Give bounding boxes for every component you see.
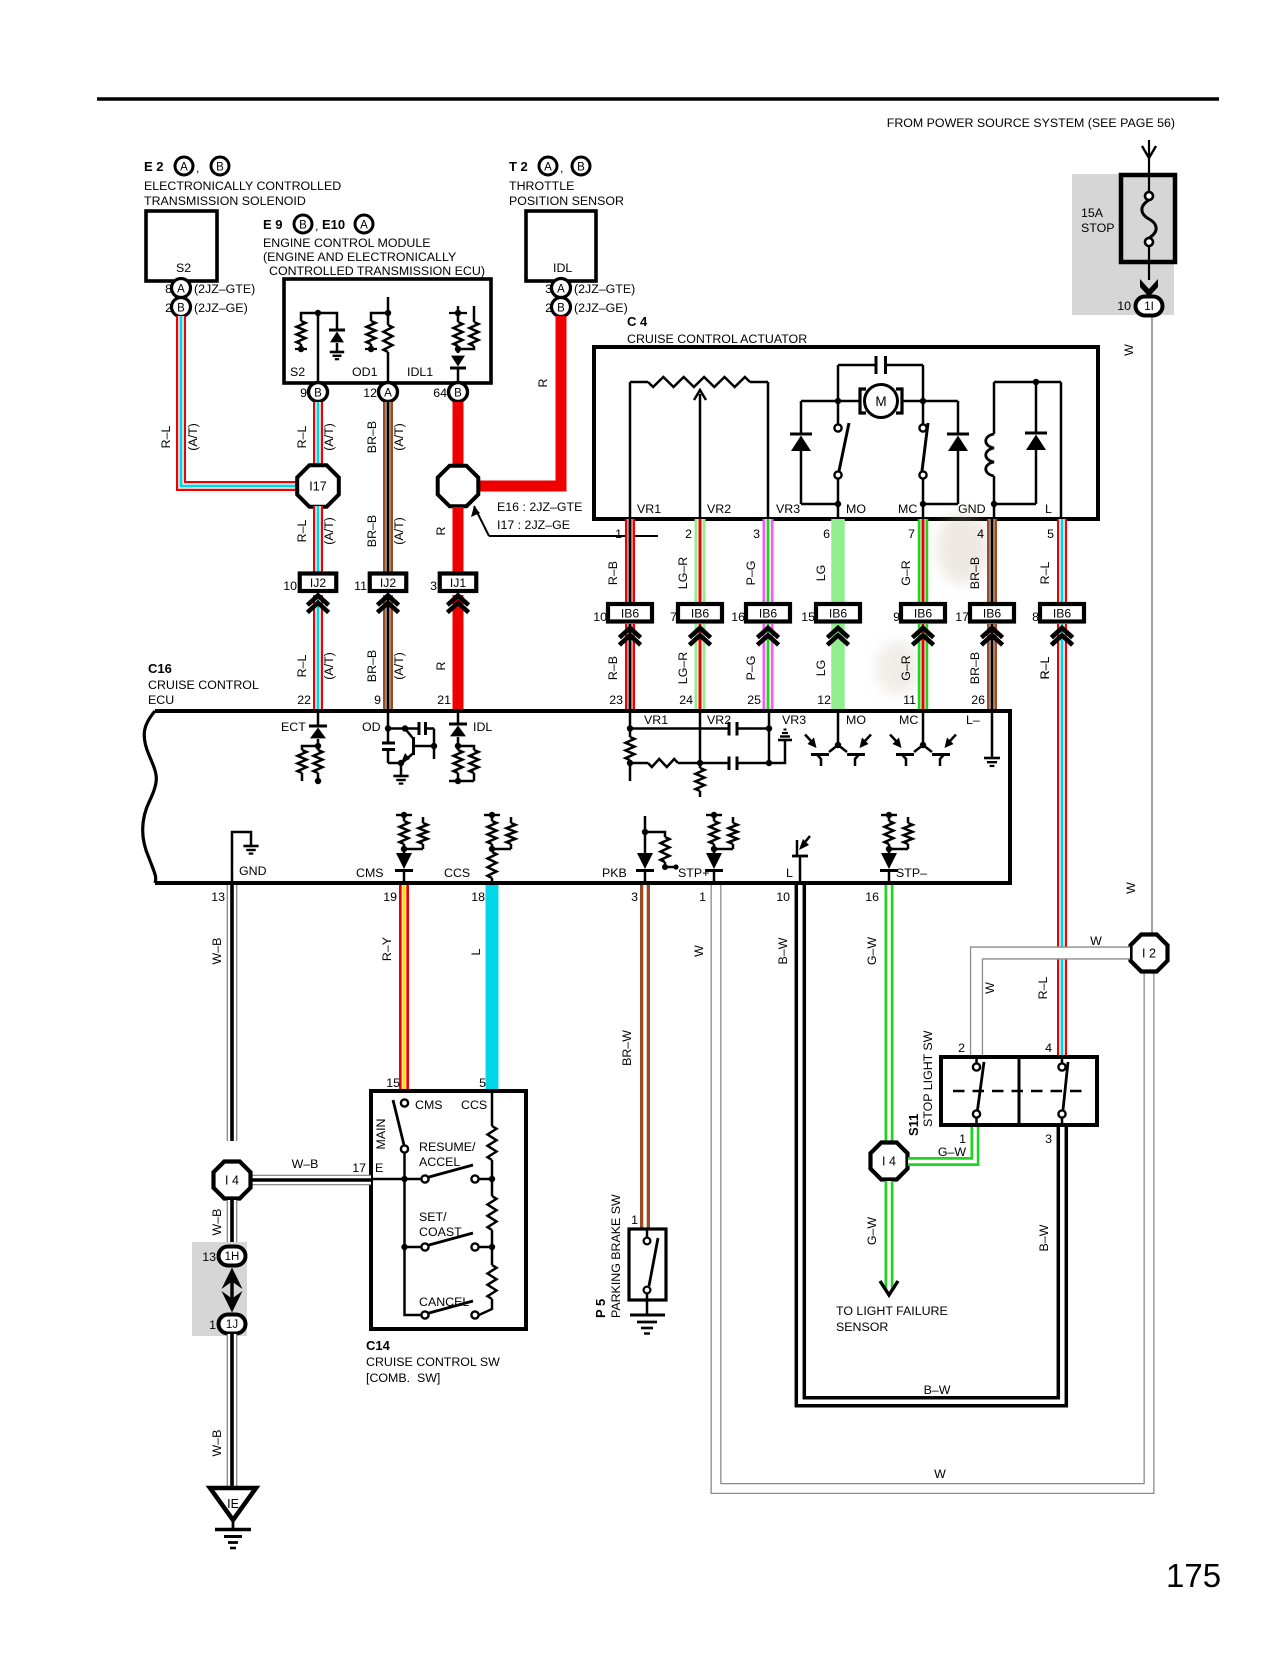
relay coil (GND): [986, 382, 994, 519]
diode D1 (MO): [790, 401, 838, 504]
svg-text:CANCEL: CANCEL: [419, 1295, 469, 1309]
wire R–B to ECU: [625, 624, 635, 709]
wire R from ECM IDL1 to E16 octagon: [453, 402, 464, 467]
svg-text:CMS: CMS: [356, 866, 384, 880]
svg-text:(A/T): (A/T): [322, 517, 336, 545]
wire W-B below I4 to 1H: [227, 1200, 238, 1247]
svg-text:STP–: STP–: [896, 866, 927, 880]
connector IJ2 pin 10: [283, 574, 336, 594]
wire R-L below I17: [313, 506, 323, 574]
svg-text:(2JZ–GTE): (2JZ–GTE): [194, 282, 255, 296]
svg-text:CCS: CCS: [444, 866, 470, 880]
ECU C16 box: [155, 711, 1010, 883]
connector 1J: [209, 1315, 245, 1334]
svg-text:BR–W: BR–W: [620, 1030, 634, 1066]
svg-text:R–L: R–L: [295, 426, 309, 449]
svg-text:CRUISE CONTROL SW: CRUISE CONTROL SW: [366, 1355, 500, 1369]
wire LG–R to ECU: [695, 624, 706, 709]
svg-text:1: 1: [631, 1213, 638, 1227]
svg-text:6: 6: [823, 527, 830, 541]
svg-text:W–B: W–B: [210, 1209, 224, 1236]
svg-text:17: 17: [955, 610, 969, 624]
svg-text:16: 16: [865, 890, 879, 904]
svg-text:IB6: IB6: [983, 606, 1002, 620]
svg-text:(A/T): (A/T): [392, 423, 406, 451]
svg-text:R–B: R–B: [606, 656, 620, 680]
svg-text:11: 11: [354, 579, 367, 593]
svg-text:L–: L–: [966, 713, 980, 727]
svg-text:A: A: [180, 162, 188, 174]
C14 RESUME/ACCEL switch: [419, 1140, 495, 1183]
svg-text:POSITION SENSOR: POSITION SENSOR: [509, 194, 624, 208]
svg-text:W: W: [1122, 344, 1136, 356]
wires below IJ row: [313, 595, 323, 709]
svg-text:LG–R: LG–R: [676, 557, 690, 589]
svg-text:A: A: [360, 220, 368, 232]
P5 switch: [644, 1229, 658, 1315]
svg-text:B–W: B–W: [1037, 1224, 1051, 1251]
svg-text:B: B: [557, 303, 565, 315]
svg-text:VR1: VR1: [637, 502, 661, 516]
svg-text:STOP: STOP: [1081, 221, 1115, 235]
svg-text:C14: C14: [366, 1338, 391, 1353]
svg-text:GND: GND: [239, 864, 267, 878]
shield chevron: [689, 628, 710, 638]
svg-text:(ENGINE AND ELECTRONICALLY: (ENGINE AND ELECTRONICALLY: [263, 250, 456, 264]
C14 CCS resistor chain top: [488, 1091, 497, 1179]
svg-text:4: 4: [1045, 1041, 1052, 1055]
svg-text:10: 10: [593, 610, 607, 624]
svg-text:IJ2: IJ2: [380, 576, 396, 590]
svg-text:ACCEL: ACCEL: [419, 1155, 460, 1169]
C14 internal E line: [371, 1176, 421, 1182]
svg-text:W: W: [934, 1467, 946, 1481]
svg-text:IDL: IDL: [553, 261, 572, 275]
ECU STP+ circuit: [678, 812, 738, 883]
svg-text:I 4: I 4: [882, 1155, 896, 1169]
svg-text:IJ1: IJ1: [450, 576, 466, 590]
svg-text:BR–B: BR–B: [365, 650, 379, 682]
svg-text:G–W: G–W: [865, 937, 879, 966]
connector I4 (G-W): [871, 1143, 908, 1180]
svg-text:MC: MC: [899, 713, 918, 727]
ECU IDL circuit: [449, 711, 492, 784]
svg-text:13: 13: [211, 890, 225, 904]
label T2 throttle position sensor: [509, 157, 624, 208]
wire B-W loop L to S11 pin 3: [800, 885, 1062, 1402]
power feed arrow: [1142, 140, 1156, 192]
svg-text:BR–B: BR–B: [365, 515, 379, 547]
svg-text:IDL1: IDL1: [407, 365, 433, 379]
wire G-W from S11 pin1 to I4: [908, 1125, 975, 1162]
wire BR–B to ECU: [987, 624, 997, 709]
connector I17: [297, 465, 339, 507]
C14 CANCEL switch: [405, 1247, 479, 1319]
svg-text:VR3: VR3: [776, 502, 800, 516]
C14 SET/COAST switch: [401, 1179, 495, 1251]
potentiometer VR: [630, 377, 768, 519]
svg-text:G–W: G–W: [865, 1217, 879, 1246]
svg-text:R: R: [434, 526, 448, 535]
svg-text:STOP LIGHT SW: STOP LIGHT SW: [921, 1030, 935, 1127]
ECU MC driver transistors: [890, 711, 956, 766]
svg-text:MAIN: MAIN: [374, 1119, 388, 1150]
arrow to light failure sensor: [880, 1281, 898, 1295]
svg-text:W–B: W–B: [292, 1157, 319, 1171]
svg-text:TRANSMISSION SOLENOID: TRANSMISSION SOLENOID: [144, 194, 306, 208]
wire R-L from ECM S2 pin to I17: [313, 402, 323, 468]
potentiometer wiper VR2: [694, 390, 706, 519]
svg-text:3: 3: [631, 890, 638, 904]
svg-text:10: 10: [283, 579, 297, 593]
svg-text:L: L: [1045, 502, 1052, 516]
svg-text:3: 3: [430, 579, 437, 593]
label E9 E10 engine control module: [263, 215, 485, 278]
svg-text:P–G: P–G: [744, 656, 758, 681]
svg-text:(2JZ–GE): (2JZ–GE): [194, 301, 248, 315]
connector IB6 pin 9: [893, 604, 945, 624]
svg-text:B: B: [216, 162, 224, 174]
svg-text:MO: MO: [846, 502, 866, 516]
svg-text:R–L: R–L: [295, 520, 309, 543]
wire R-L from IB6 8 down to S11 pin 4: [1057, 624, 1067, 1057]
svg-text:B–W: B–W: [924, 1383, 951, 1397]
shield chevron: [827, 628, 848, 638]
wire R below E16 octagon: [453, 507, 464, 574]
svg-text:1: 1: [959, 1132, 966, 1146]
svg-text:VR2: VR2: [707, 502, 731, 516]
svg-text:3: 3: [753, 527, 760, 541]
svg-text:(A/T): (A/T): [392, 517, 406, 545]
C14 MAIN switch: [374, 1099, 408, 1179]
svg-text:A: A: [544, 162, 552, 174]
svg-text:26: 26: [971, 693, 985, 707]
throttle sensor IDL box: [526, 211, 596, 281]
svg-text:LG: LG: [814, 565, 828, 582]
svg-text:CCS: CCS: [461, 1098, 487, 1112]
svg-text:IB6: IB6: [829, 606, 848, 620]
svg-text:E16 : 2JZ–GTE: E16 : 2JZ–GTE: [497, 500, 582, 514]
node MO top: [835, 398, 841, 404]
svg-text:4: 4: [977, 527, 984, 541]
svg-text:(2JZ–GE): (2JZ–GE): [574, 301, 628, 315]
connector 1H: [202, 1247, 245, 1266]
connector IB6 pin 17: [955, 604, 1014, 624]
ECU GND lead: [232, 832, 267, 883]
svg-text:[COMB. SW]: [COMB. SW]: [366, 1371, 440, 1385]
svg-text:9: 9: [374, 693, 381, 707]
svg-text:10: 10: [1117, 299, 1131, 313]
svg-text:23: 23: [609, 693, 623, 707]
svg-text:B: B: [454, 388, 462, 400]
svg-text:MC: MC: [898, 502, 917, 516]
connector IJ2 pin 11: [354, 574, 406, 594]
ECM S2 circuit: [290, 310, 345, 383]
svg-text:175: 175: [1166, 1557, 1221, 1594]
svg-text:P–G: P–G: [744, 561, 758, 586]
diode D2 (MC): [923, 401, 969, 504]
svg-text:1: 1: [615, 527, 622, 541]
svg-text:22: 22: [297, 693, 311, 707]
page top rule: [97, 97, 1219, 101]
svg-text:G–W: G–W: [938, 1145, 967, 1159]
svg-text:MO: MO: [846, 713, 866, 727]
ECU VR1/VR2/VR3 network: [626, 711, 807, 797]
fuse shaded area: [1072, 174, 1174, 315]
svg-text:R: R: [434, 661, 448, 670]
svg-text:E 2: E 2: [144, 159, 164, 174]
svg-text:RESUME/: RESUME/: [419, 1140, 476, 1154]
svg-text:,: ,: [560, 161, 563, 175]
svg-text:ENGINE CONTROL MODULE: ENGINE CONTROL MODULE: [263, 236, 431, 250]
svg-text:,: ,: [196, 161, 199, 175]
svg-text:VR3: VR3: [782, 713, 806, 727]
svg-text:B: B: [299, 220, 307, 232]
ECM pin 64 B: [433, 383, 467, 402]
P5 ground: [630, 1315, 665, 1334]
svg-text:C16: C16: [148, 661, 172, 676]
svg-text:(A/T): (A/T): [392, 652, 406, 680]
svg-text:(2JZ–GTE): (2JZ–GTE): [574, 282, 635, 296]
svg-text:I17 : 2JZ–GE: I17 : 2JZ–GE: [497, 518, 570, 532]
svg-text:B: B: [177, 303, 185, 315]
svg-text:1: 1: [699, 890, 706, 904]
svg-text:,: ,: [315, 219, 318, 233]
smudge artifacts: [876, 512, 989, 695]
svg-text:18: 18: [471, 890, 485, 904]
svg-text:BR–B: BR–B: [365, 421, 379, 453]
node MC top: [920, 398, 926, 404]
connector IB6 pin 8: [1032, 604, 1084, 624]
connector 1I: [1117, 297, 1162, 316]
svg-text:CONTROLLED TRANSMISSION ECU): CONTROLLED TRANSMISSION ECU): [269, 264, 485, 278]
svg-text:21: 21: [437, 693, 451, 707]
svg-text:STP+: STP+: [678, 866, 709, 880]
wire LG to ECU: [831, 624, 845, 709]
svg-text:64: 64: [433, 386, 447, 400]
svg-text:B–W: B–W: [776, 937, 790, 964]
svg-text:SENSOR: SENSOR: [836, 1320, 888, 1334]
arrow into 1I: [1140, 279, 1158, 297]
diode D3 (L): [991, 379, 1061, 507]
ECU CMS circuit: [356, 812, 428, 883]
svg-text:E10: E10: [322, 217, 345, 232]
wire G-W below I4: [885, 1181, 894, 1290]
svg-text:R–L: R–L: [159, 426, 173, 449]
svg-text:PKB: PKB: [602, 866, 627, 880]
svg-text:CRUISE CONTROL ACTUATOR: CRUISE CONTROL ACTUATOR: [627, 332, 807, 346]
svg-text:(A/T): (A/T): [186, 423, 200, 451]
svg-text:B: B: [314, 388, 322, 400]
svg-text:I 4: I 4: [225, 1174, 239, 1188]
svg-text:12: 12: [817, 693, 831, 707]
svg-text:IB6: IB6: [621, 606, 640, 620]
svg-text:G–R: G–R: [899, 655, 913, 681]
ECU PKB circuit: [602, 816, 679, 883]
ECM box: [284, 279, 491, 383]
svg-text:IB6: IB6: [691, 606, 710, 620]
svg-text:L: L: [469, 948, 483, 955]
switch MC: [919, 401, 928, 519]
T2 pin 3 A: [545, 279, 635, 298]
ECU L sense: [786, 836, 810, 883]
svg-text:SET/: SET/: [419, 1210, 447, 1224]
svg-text:25: 25: [747, 693, 761, 707]
shield chevron: [981, 628, 1002, 638]
connector IB6 pin 7: [670, 604, 722, 624]
svg-text:R–B: R–B: [606, 561, 620, 585]
wire R–L to ECU: [1057, 624, 1067, 709]
svg-text:ELECTRONICALLY CONTROLLED: ELECTRONICALLY CONTROLLED: [144, 179, 341, 193]
wire R-L from E2 to I17: [181, 316, 299, 486]
svg-text:W: W: [983, 982, 997, 994]
ECU CCS circuit: [444, 812, 516, 883]
svg-text:9: 9: [300, 386, 307, 400]
svg-text:R–L: R–L: [295, 655, 309, 678]
svg-text:S11: S11: [906, 1114, 921, 1136]
svg-text:S2: S2: [176, 261, 191, 275]
actuator C4 box: [594, 347, 1098, 519]
svg-text:T 2: T 2: [509, 159, 528, 174]
ECM IDL1 circuit: [407, 306, 479, 383]
svg-text:16: 16: [731, 610, 745, 624]
connector IB6 pin 10: [593, 604, 652, 624]
ECU STP- circuit: [880, 812, 927, 883]
svg-text:IE: IE: [227, 1497, 239, 1511]
parking brake switch P5 box: [629, 1229, 666, 1300]
svg-text:13: 13: [202, 1250, 216, 1264]
E2 pin 2 B: [165, 298, 248, 317]
wire W loop STP+ to I2: [716, 885, 1149, 1489]
svg-text:A: A: [557, 284, 565, 296]
svg-text:W: W: [1124, 882, 1138, 894]
svg-text:E 9: E 9: [263, 217, 283, 232]
svg-text:2: 2: [958, 1041, 965, 1055]
cruise control switch C14 box: [371, 1091, 526, 1329]
svg-text:L: L: [786, 866, 793, 880]
T2 pin 2 B: [545, 298, 628, 317]
svg-text:G–R: G–R: [899, 560, 913, 586]
connector IJ1 pin 3: [430, 574, 476, 594]
svg-text:24: 24: [679, 693, 693, 707]
ECM pin 12 A: [363, 383, 397, 402]
svg-text:BR–B: BR–B: [968, 557, 982, 589]
svg-text:CRUISE CONTROL: CRUISE CONTROL: [148, 678, 259, 692]
svg-text:R–L: R–L: [1036, 977, 1050, 1000]
callout note E16/I17: [471, 500, 658, 536]
wire L inside C4: [1060, 382, 1063, 519]
svg-text:B: B: [577, 162, 585, 174]
svg-text:W: W: [692, 945, 706, 957]
shield chevron: [1051, 628, 1072, 638]
svg-text:IJ2: IJ2: [310, 576, 326, 590]
connector I4 (W-B): [214, 1162, 251, 1199]
svg-text:1: 1: [209, 1318, 216, 1332]
transmission solenoid S2 box: [146, 211, 217, 281]
wire L: [486, 885, 499, 1091]
ECU MO driver transistors: [805, 711, 871, 766]
S11 left switch: [973, 1057, 984, 1125]
ECU OD circuit: [362, 711, 437, 784]
ground IE: [210, 1488, 256, 1548]
connector I2: [1131, 935, 1168, 972]
svg-text:R–Y: R–Y: [380, 937, 394, 961]
svg-text:1J: 1J: [226, 1319, 238, 1331]
svg-text:OD1: OD1: [352, 365, 378, 379]
svg-text:7: 7: [908, 527, 915, 541]
connector E16/I17 octagon: [438, 466, 479, 507]
svg-text:I 2: I 2: [1142, 947, 1156, 961]
svg-text:FROM POWER SOURCE SYSTEM (SEE: FROM POWER SOURCE SYSTEM (SEE PAGE 56): [887, 116, 1175, 130]
svg-text:15: 15: [801, 610, 815, 624]
E2 pin 8 A: [165, 279, 255, 298]
svg-text:10: 10: [776, 890, 790, 904]
C14 CCS resistor 3: [479, 1247, 497, 1315]
wire W single from fuse to I2: [1151, 316, 1153, 935]
svg-text:12: 12: [363, 386, 377, 400]
svg-text:11: 11: [903, 693, 916, 707]
stop light switch S11 box: [941, 1057, 1097, 1125]
svg-text:R–L: R–L: [1038, 562, 1052, 585]
svg-text:R–L: R–L: [1038, 657, 1052, 680]
motor M: [838, 385, 923, 418]
svg-text:OD: OD: [362, 720, 381, 734]
connector IB6 pin 16: [731, 604, 790, 624]
connector IB6 pin 15: [801, 604, 860, 624]
svg-text:IB6: IB6: [759, 606, 778, 620]
shield chevron: [912, 628, 933, 638]
svg-text:S2: S2: [290, 365, 305, 379]
svg-text:P 5: P 5: [593, 1299, 608, 1318]
svg-text:IDL: IDL: [473, 720, 492, 734]
wire R from T2 to E16 octagon: [479, 316, 561, 486]
wire P–G to ECU: [763, 624, 774, 709]
svg-text:19: 19: [383, 890, 397, 904]
svg-text:PARKING BRAKE SW: PARKING BRAKE SW: [609, 1194, 623, 1318]
svg-text:LG: LG: [814, 660, 828, 677]
svg-text:2: 2: [685, 527, 692, 541]
junction block 1H/1J shaded area: [192, 1242, 247, 1336]
ECU ECT circuit: [281, 711, 327, 784]
svg-text:(A/T): (A/T): [322, 652, 336, 680]
wire G-W from STP-: [885, 885, 894, 1142]
svg-text:ECU: ECU: [148, 693, 174, 707]
svg-text:5: 5: [1047, 527, 1054, 541]
svg-text:M: M: [875, 394, 886, 409]
wire W-B from ECU 13 to I4: [227, 885, 238, 1141]
svg-text:A: A: [177, 284, 185, 296]
ECM OD1 circuit: [352, 297, 393, 383]
label E2: [144, 157, 341, 208]
svg-text:1H: 1H: [225, 1251, 240, 1263]
switch MO: [834, 401, 849, 519]
svg-text:A: A: [384, 388, 392, 400]
svg-text:3: 3: [1045, 1132, 1052, 1146]
wire W from I2 to S11 pin 2: [977, 953, 1131, 1057]
wire W-B below 1J: [227, 1334, 238, 1488]
wire BR-B from ECM OD1 to IJ2: [383, 402, 393, 574]
svg-text:5: 5: [479, 1076, 486, 1090]
arrows between 1H and 1J: [222, 1268, 243, 1313]
S11 right switch: [1058, 1057, 1068, 1125]
svg-text:(A/T): (A/T): [322, 423, 336, 451]
svg-text:IB6: IB6: [914, 606, 933, 620]
svg-text:VR1: VR1: [644, 713, 668, 727]
svg-text:15: 15: [386, 1076, 400, 1090]
svg-text:17: 17: [352, 1161, 366, 1175]
capacitor C4 top: [838, 356, 923, 398]
svg-text:LG–R: LG–R: [676, 652, 690, 684]
